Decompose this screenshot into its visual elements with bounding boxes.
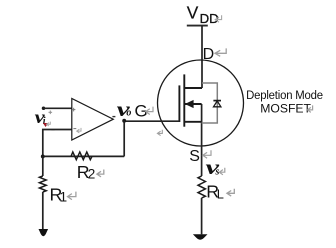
return mark after vi (46, 122, 50, 126)
VDD power bar (187, 25, 208, 27)
svg-text:MOSFET: MOSFET (260, 102, 311, 116)
wire inverting input (43, 130, 72, 157)
svg-text:L: L (217, 186, 224, 201)
annotation Depletion Mode MOSFET (246, 89, 323, 116)
ground right (193, 234, 208, 239)
resistor R1 zigzag (39, 176, 46, 192)
node VDD label (187, 2, 219, 26)
op-amp U1 triangle (72, 99, 114, 141)
ground left (39, 229, 49, 236)
svg-text:Depletion Mode: Depletion Mode (246, 89, 323, 102)
input terminal dot (42, 107, 46, 111)
wire feedback horizontal (R2 row) (43, 155, 124, 157)
polarity plus at input (49, 111, 53, 115)
svg-text:o: o (126, 108, 131, 119)
wire feedback vertical (123, 121, 125, 156)
red revision arrow under vi (43, 123, 48, 127)
return mark after R1 (68, 192, 76, 200)
wire RL to ground (201, 198, 203, 234)
svg-text:S: S (189, 148, 200, 165)
return mark after R2 (97, 170, 104, 177)
polarity minus at input (51, 129, 54, 131)
resistor R2 zigzag (71, 152, 92, 160)
return mark after S (203, 150, 211, 158)
wire drain vertical from VDD bar to drain tap (201, 26, 203, 88)
return mark after RL (227, 189, 234, 196)
label RL (206, 182, 224, 202)
return mark below gate wire (157, 130, 162, 136)
svg-text:1: 1 (59, 188, 67, 204)
svg-text:DD: DD (200, 11, 219, 26)
op-amp plus input mark (72, 108, 76, 112)
MOSFET source tap (184, 121, 201, 123)
MOSFET U1 body circle (158, 60, 244, 146)
label vo (117, 99, 132, 121)
label R1 (50, 185, 68, 205)
op-amp minus input mark (73, 128, 76, 130)
body diode D1 (213, 101, 221, 107)
resistor RL zigzag (198, 176, 205, 198)
junction dot R1 R2 (41, 154, 45, 158)
label R2 (77, 162, 95, 182)
MOSFET gate bar (178, 85, 180, 122)
wire R1 top (42, 156, 44, 176)
wire op-amp output to gate (123, 120, 180, 122)
svg-text:2: 2 (88, 167, 96, 182)
output node junction dot (122, 119, 126, 123)
return mark after VDD (215, 15, 221, 22)
return mark after D (215, 48, 226, 56)
label vi (35, 107, 46, 127)
wire input to op-amp plus (44, 107, 72, 109)
MOSFET drain tap (184, 87, 202, 89)
MOSFET body arrow head (185, 100, 194, 108)
MOSFET channel bar (183, 74, 185, 126)
MOSFET body tap with arrow (184, 103, 201, 105)
return mark after vs (219, 168, 224, 175)
wire R1 to ground (42, 192, 44, 229)
return mark after MOSFET (308, 105, 313, 112)
svg-text:V: V (187, 2, 199, 22)
node vs label (206, 158, 220, 179)
return mark after G (146, 107, 153, 115)
body diode loop wire (gray) (202, 83, 218, 123)
minus sign before vo (112, 116, 115, 118)
wire source vertical (body tap down through circle to RL) (201, 104, 203, 176)
return mark at op-amp minus (77, 128, 81, 133)
